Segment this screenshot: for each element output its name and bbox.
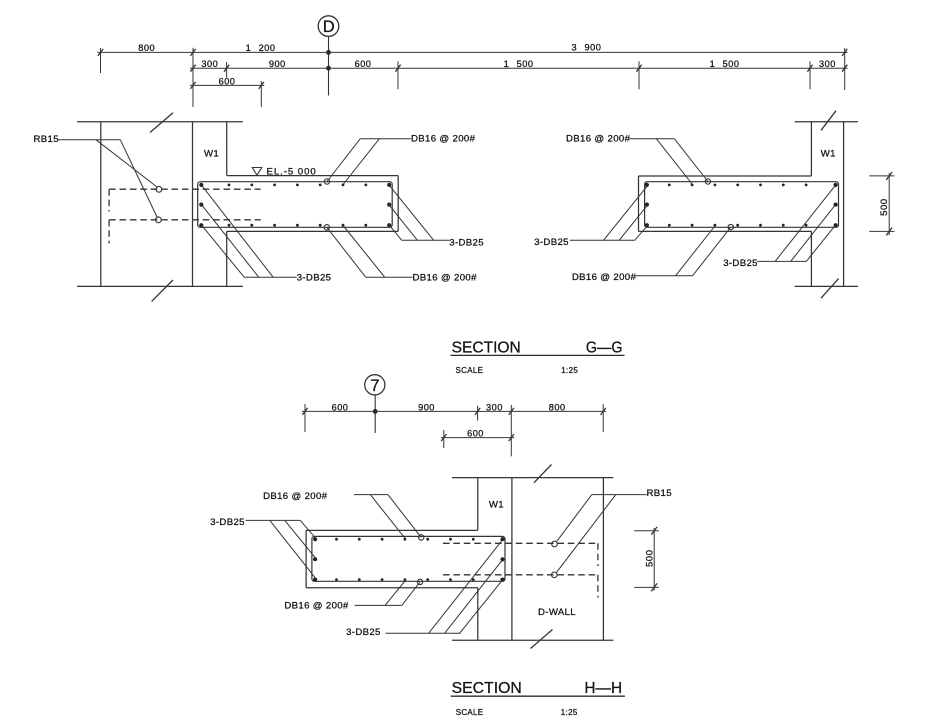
svg-text:W1: W1 <box>821 149 836 160</box>
label DB16 @ 200# bottom-right with leader <box>572 226 731 283</box>
label 3-DB25 top-left H-H with leader <box>210 517 316 579</box>
beam left rebar dots bottom row <box>199 223 391 227</box>
wall top cap with break <box>77 113 243 133</box>
title SECTION H-H <box>451 680 625 717</box>
svg-text:RB15: RB15 <box>647 488 672 499</box>
beam right DB16 hook loops <box>705 179 733 230</box>
label DB16 @ 200# top-right with leader <box>566 134 708 185</box>
title SECTION G-G <box>451 340 625 375</box>
label 3-DB25 left beam right with leader <box>389 185 484 249</box>
svg-text:300: 300 <box>486 402 503 412</box>
svg-text:3-DB25: 3-DB25 <box>534 237 569 248</box>
beam H-H rebar dots middle <box>313 557 505 561</box>
svg-text:1:25: 1:25 <box>561 708 578 717</box>
EL -5 000 level marker <box>252 166 316 177</box>
label 3-DB25 right beam left with leader <box>534 186 647 248</box>
beam right stirrup <box>645 182 839 228</box>
svg-text:3-DB25: 3-DB25 <box>297 273 332 284</box>
wall W1 left right edge <box>226 122 228 287</box>
label DB16 @ 200# bottom H-H with leader <box>284 581 420 612</box>
svg-text:SECTION: SECTION <box>452 340 521 357</box>
label DB16 @ 200# top H-H with leader <box>263 491 421 538</box>
svg-text:1:25: 1:25 <box>561 366 578 375</box>
wall D-wall left column <box>101 122 193 287</box>
svg-text:900: 900 <box>418 402 435 412</box>
svg-text:900: 900 <box>269 59 286 69</box>
beam left DB16 hook loops <box>324 179 330 230</box>
bottom walls bottom cap with break <box>452 630 613 649</box>
svg-text:DB16 @ 200#: DB16 @ 200# <box>284 601 349 612</box>
beam right rebar dots middle <box>645 203 838 207</box>
svg-text:H—H: H—H <box>584 680 622 697</box>
svg-text:1 500: 1 500 <box>710 59 740 69</box>
RB15 dashed bars into D-WALL <box>443 543 598 597</box>
svg-text:600: 600 <box>467 429 484 439</box>
svg-text:DB16 @ 200#: DB16 @ 200# <box>572 272 637 283</box>
grid line 7 <box>373 395 378 433</box>
extension lines row 1 <box>101 48 845 107</box>
beam H-H rebar dots bottom row <box>313 578 505 582</box>
svg-text:DB16 @ 200#: DB16 @ 200# <box>566 134 631 145</box>
svg-text:800: 800 <box>549 402 566 412</box>
beam section H-H outline <box>306 530 478 587</box>
svg-text:300: 300 <box>201 59 218 69</box>
dimension row 600/900/300/800 <box>302 402 606 415</box>
label W1 right <box>821 149 836 160</box>
svg-text:3-DB25: 3-DB25 <box>346 627 381 638</box>
svg-text:3 900: 3 900 <box>571 43 601 53</box>
svg-text:600: 600 <box>355 59 372 69</box>
svg-text:DB16 @ 200#: DB16 @ 200# <box>413 273 478 284</box>
svg-text:DB16 @ 200#: DB16 @ 200# <box>411 134 476 145</box>
svg-text:300: 300 <box>819 59 836 69</box>
label D-WALL <box>538 607 576 618</box>
beam left rebar dots top row <box>199 183 391 187</box>
extension lines bottom row 1 <box>305 404 603 456</box>
svg-text:600: 600 <box>219 76 236 86</box>
label DB16 @ 200# bottom-left with leader <box>327 226 477 284</box>
svg-text:W1: W1 <box>204 149 219 160</box>
extension lines row 2 <box>227 61 810 89</box>
right wall bottom cap with break <box>795 279 858 299</box>
beam H-H DB16 hook loops <box>417 535 424 585</box>
grid bubble D <box>318 16 339 37</box>
label RB15 bottom with leader <box>556 488 672 573</box>
grid bubble 7 <box>365 375 385 395</box>
label 3-DB25 left beam left with leader <box>202 186 331 284</box>
beam left stirrup <box>198 182 393 228</box>
svg-text:3-DB25: 3-DB25 <box>210 517 245 528</box>
svg-text:800: 800 <box>138 43 155 53</box>
svg-text:D: D <box>323 18 335 36</box>
dimension 500 beam depth top <box>869 172 894 235</box>
svg-text:D-WALL: D-WALL <box>538 607 576 618</box>
label RB15 with leader <box>34 134 158 218</box>
dimension row 300/900/600/1 500/1 500/300 <box>190 59 848 72</box>
wall D-WALL right edge <box>602 478 604 641</box>
RB15 bar hooks bottom <box>552 541 558 578</box>
beam right rebar dots bottom row <box>645 223 838 227</box>
beam left rebar dots middle <box>199 203 391 207</box>
label W1 left <box>204 149 219 160</box>
RB15 dashed bars in left wall <box>109 189 261 243</box>
svg-text:SCALE: SCALE <box>456 708 484 717</box>
svg-text:3-DB25: 3-DB25 <box>449 237 484 248</box>
grid line D <box>326 37 331 96</box>
beam section G-G right outline <box>639 176 812 231</box>
svg-text:SECTION: SECTION <box>452 680 522 697</box>
svg-text:W1: W1 <box>489 500 504 511</box>
svg-text:1 500: 1 500 <box>504 59 534 69</box>
beam H-H rebar dots top row <box>313 537 505 541</box>
label DB16 @ 200# top-left with leader <box>327 134 476 185</box>
wall W1 bottom drawing <box>478 478 512 641</box>
label W1 bottom <box>489 500 504 511</box>
svg-text:SCALE: SCALE <box>456 366 484 375</box>
svg-text:3-DB25: 3-DB25 <box>723 258 758 269</box>
svg-text:G—G: G—G <box>586 340 623 357</box>
dimension 500 beam depth bottom <box>634 527 659 591</box>
dimension 600 row 3 <box>190 76 264 107</box>
RB15 bar hooks <box>156 186 162 222</box>
wall bottom cap with break <box>77 280 243 301</box>
label 3-DB25 right beam right with leader <box>723 186 835 269</box>
bottom walls top cap with break <box>452 465 613 483</box>
svg-text:RB15: RB15 <box>34 134 59 145</box>
svg-text:7: 7 <box>370 377 379 395</box>
right wall top cap with break <box>795 111 858 131</box>
wall W1 right column <box>811 122 843 287</box>
svg-text:600: 600 <box>332 402 349 412</box>
svg-text:1 200: 1 200 <box>246 43 276 53</box>
dimension row 800 / 1 200 / 3 900 <box>98 43 848 56</box>
dimension 600 bottom row 2 <box>441 429 515 449</box>
svg-text:500: 500 <box>879 198 890 216</box>
beam H-H stirrup <box>312 536 505 581</box>
beam section G-G left outline <box>227 176 398 232</box>
svg-text:DB16 @ 200#: DB16 @ 200# <box>263 491 328 502</box>
svg-text:500: 500 <box>644 550 655 568</box>
label 3-DB25 bottom H-H with leader <box>346 540 502 638</box>
beam right rebar dots top row <box>645 183 838 187</box>
